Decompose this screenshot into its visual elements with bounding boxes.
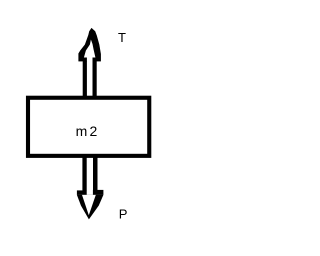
shaft right bar bbox=[93, 61, 97, 97]
weight arrow P (hollow downward arrow below block) bbox=[77, 155, 104, 219]
mass block m2 bbox=[28, 98, 149, 156]
right barb foot bbox=[93, 190, 104, 195]
shaft right bar bbox=[93, 155, 98, 191]
shaft left bar bbox=[82, 155, 86, 191]
left barb foot bbox=[78, 58, 87, 62]
tension arrow T (hollow upward arrow above block) bbox=[78, 28, 101, 97]
arrowhead outline (solid black head) bbox=[78, 28, 101, 58]
left barb foot bbox=[77, 190, 87, 195]
right barb foot bbox=[93, 58, 101, 62]
arrowhead inner white wedge bbox=[84, 40, 96, 58]
shaft left bar bbox=[83, 61, 87, 97]
svg-text:P: P bbox=[119, 207, 128, 222]
svg-text:T: T bbox=[118, 30, 126, 45]
arrowhead V (solid black) bbox=[77, 195, 104, 220]
svg-text:m 2: m 2 bbox=[76, 123, 98, 139]
arrowhead inner white wedge bbox=[82, 195, 96, 215]
